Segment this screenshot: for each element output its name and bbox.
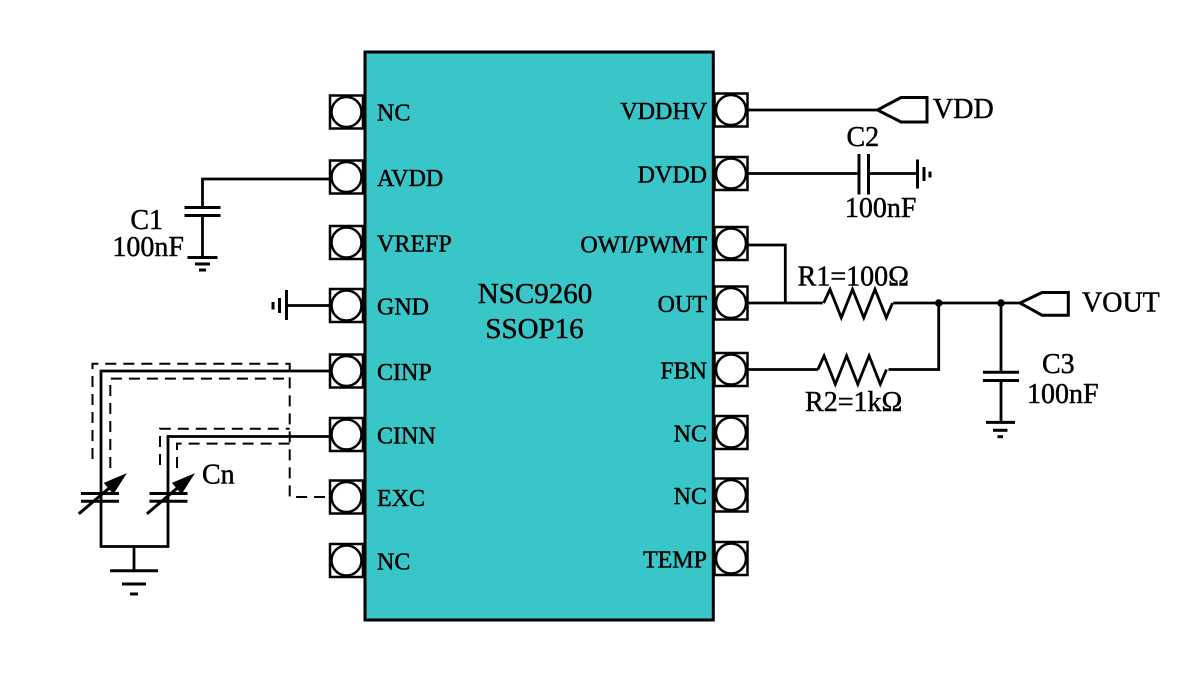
svg-text:OUT: OUT [658, 292, 708, 318]
svg-text:SSOP16: SSOP16 [485, 313, 583, 345]
ground at C2 (rotated right) [918, 160, 931, 189]
pin pad 14 right (OWI/PWMT) [715, 227, 748, 260]
svg-text:100nF: 100nF [112, 232, 184, 263]
junction node (C3) [997, 299, 1005, 307]
resistor R2 [818, 356, 887, 384]
svg-text:AVDD: AVDD [377, 166, 443, 192]
svg-text:NC: NC [674, 422, 707, 448]
pin pad 4 left (GND) [330, 289, 363, 322]
wire CINN to sensor capacitor Cb [168, 437, 330, 547]
svg-text:VDD: VDD [933, 94, 994, 125]
capacitor C1 [185, 208, 221, 216]
pin pad 13 right (OUT) [715, 287, 748, 320]
pin pad 12 right (FBN) [715, 353, 748, 386]
svg-text:R1=100Ω: R1=100Ω [798, 262, 909, 293]
wire node to C3 [1000, 303, 1003, 371]
svg-text:DVDD: DVDD [638, 163, 707, 189]
ground at GND pin (rotated left) [273, 290, 287, 320]
svg-text:EXC: EXC [377, 486, 425, 512]
shield dashed inner (CINP guard) [110, 379, 289, 468]
svg-text:NC: NC [674, 484, 707, 510]
wire C1 to ground [201, 216, 204, 258]
svg-text:NSC9260: NSC9260 [478, 278, 592, 310]
pin pad 9 right (TEMP) [715, 542, 748, 575]
svg-text:OWI/PWMT: OWI/PWMT [580, 233, 707, 259]
variable capacitor Ca plates [81, 494, 119, 502]
svg-text:CINN: CINN [377, 424, 436, 450]
wire CINP to sensor capacitor Ca [101, 371, 330, 547]
svg-text:FBN: FBN [660, 359, 707, 385]
svg-text:VREFP: VREFP [377, 232, 452, 258]
pin pad 3 left (VREFP) [330, 226, 363, 259]
wire to sensor ground [133, 547, 136, 571]
svg-text:NC: NC [377, 550, 410, 576]
wire joining sensor caps [100, 545, 170, 548]
svg-text:GND: GND [377, 295, 429, 321]
junction node (R1/R2) [935, 299, 943, 307]
pin pad 7 left (EXC) [330, 481, 363, 514]
pin pad 5 left (CINP) [330, 355, 363, 388]
resistor R1 [824, 289, 893, 317]
ground below C1 [188, 258, 218, 271]
pin pad 1 left (NC) [330, 96, 363, 129]
shield dashed outer (CINN guard) [160, 429, 290, 465]
svg-text:R2=1kΩ: R2=1kΩ [805, 387, 902, 418]
svg-text:CINP: CINP [377, 360, 432, 386]
variable capacitor Ca arrow [79, 473, 127, 514]
wire C3 to ground [1000, 381, 1003, 422]
wire FBN to R2 [748, 368, 818, 371]
ground below C3 [986, 422, 1015, 436]
shield dashed inner (CINN guard) [177, 444, 290, 468]
pin pad 2 left (AVDD) [330, 161, 363, 194]
shield dashed outer (CINP guard to EXC) [93, 364, 330, 497]
svg-text:NC: NC [377, 101, 410, 127]
svg-text:Cn: Cn [202, 460, 235, 491]
svg-text:100nF: 100nF [1027, 379, 1099, 410]
wire GND pin to ground symbol [287, 304, 329, 307]
pin pad 6 left (CINN) [330, 418, 363, 451]
wire OWI/PWMT down to OUT net [748, 245, 786, 303]
pin pad 8 left (NC) [330, 544, 363, 577]
IC U1 NSC9260 body [365, 52, 713, 620]
pin pad 10 right (NC) [715, 479, 748, 512]
wire OUT to R1 [748, 302, 823, 305]
capacitor C2 [859, 154, 869, 195]
wire R1 to VOUT node [893, 302, 1020, 305]
wire AVDD to C1 [203, 179, 331, 206]
capacitor C3 [983, 372, 1019, 380]
variable capacitor Cb arrow [147, 473, 195, 514]
wire C2 to ground [869, 172, 917, 175]
variable capacitor Cb plates [150, 494, 188, 502]
svg-text:C3: C3 [1042, 349, 1075, 380]
svg-text:VDDHV: VDDHV [620, 99, 707, 125]
pin pad 16 right (VDDHV) [715, 94, 748, 127]
svg-text:TEMP: TEMP [643, 548, 707, 574]
ground below sensor caps [110, 571, 158, 594]
svg-text:C2: C2 [846, 122, 879, 153]
pin pad 15 right (DVDD) [715, 157, 748, 190]
svg-text:VOUT: VOUT [1082, 288, 1160, 319]
wire DVDD to C2 [748, 172, 858, 175]
wire VDDHV to VDD flag [748, 109, 878, 112]
svg-text:100nF: 100nF [845, 193, 917, 224]
power flag VDD [878, 98, 928, 123]
output flag VOUT [1020, 293, 1068, 316]
pin pad 11 right (NC) [715, 416, 748, 449]
wire R2 to OUT node [889, 303, 939, 370]
